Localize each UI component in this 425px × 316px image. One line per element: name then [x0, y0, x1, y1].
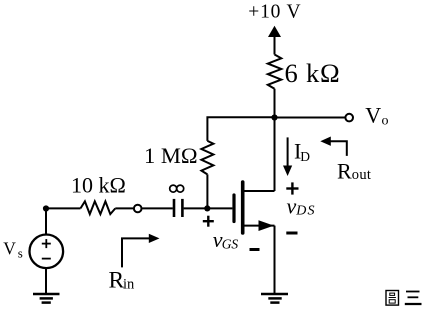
source Vs minus — [42, 258, 51, 260]
svg-text:v: v — [287, 193, 297, 218]
arrow Rin — [122, 238, 150, 267]
resistor RG 1 M zigzag — [201, 141, 213, 175]
wire Vs to ground — [45, 268, 47, 294]
wire node down to drain lead — [274, 118, 276, 192]
source Vs plus — [42, 239, 51, 248]
ground source — [261, 294, 288, 303]
label Vs — [3, 238, 23, 260]
label minus vGS — [250, 248, 260, 251]
wire input node down to source Vs — [45, 208, 47, 234]
wire resistor to drain node — [274, 89, 276, 118]
wire node to gate branch corner — [207, 117, 274, 141]
source Vs circle — [30, 235, 64, 269]
resistor 10 k zigzag — [81, 201, 116, 214]
arrow ID — [287, 137, 289, 167]
wire RG bottom to gate node — [206, 174, 208, 208]
label vGS — [213, 227, 239, 252]
arrow Rout — [329, 141, 347, 156]
svg-text:+10 V: +10 V — [248, 2, 301, 23]
wire input node to 10k — [46, 207, 81, 209]
label plus vGS — [203, 216, 214, 227]
resistor RD 6 k zigzag — [268, 55, 282, 89]
mosfet M1 source lead with arrow — [243, 225, 275, 227]
svg-text:10 kΩ: 10 kΩ — [71, 172, 126, 197]
label infinity — [170, 185, 184, 192]
label Rin — [109, 268, 136, 294]
label vDS — [287, 193, 316, 218]
capacitor C plates — [173, 199, 176, 217]
node drain junction dot — [271, 114, 277, 120]
VDD arrow — [268, 26, 281, 37]
label Vo — [365, 103, 388, 129]
ground Vs — [33, 294, 60, 303]
node input junction dot — [43, 205, 49, 211]
svg-text:D: D — [300, 149, 310, 164]
mosfet M1 channel bar — [241, 182, 245, 233]
wire capacitor to gate — [184, 207, 233, 209]
wire terminal to capacitor — [142, 207, 173, 209]
svg-text:6 kΩ: 6 kΩ — [285, 58, 341, 88]
label Rout — [337, 158, 371, 183]
label plus vDS — [286, 182, 298, 194]
terminal input open circle — [134, 205, 142, 213]
terminal Vo circle — [345, 114, 353, 122]
svg-text:R: R — [337, 158, 352, 183]
svg-text:o: o — [382, 113, 389, 128]
label figure caption glyph san — [405, 292, 422, 305]
svg-text:1 MΩ: 1 MΩ — [144, 143, 198, 168]
svg-text:in: in — [123, 277, 135, 293]
label figure caption glyph tu — [386, 291, 399, 306]
wire source to ground — [274, 226, 276, 294]
mosfet M1 gate bar — [232, 195, 235, 222]
svg-text:GS: GS — [222, 237, 239, 252]
wire node to Vo — [275, 117, 345, 119]
svg-text:s: s — [18, 246, 23, 261]
mosfet M1 drain lead — [243, 190, 275, 192]
svg-text:V: V — [3, 238, 16, 258]
svg-text:out: out — [352, 167, 371, 183]
svg-text:V: V — [365, 103, 381, 128]
node gate junction dot — [204, 205, 210, 211]
wire 10k to open terminal — [115, 207, 134, 209]
label minus vDS — [286, 232, 297, 235]
svg-text:DS: DS — [295, 204, 316, 219]
label ID — [294, 139, 310, 165]
